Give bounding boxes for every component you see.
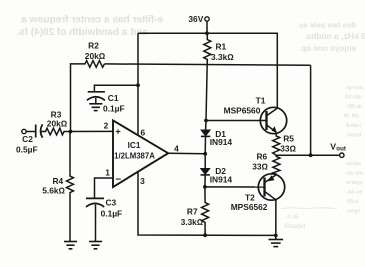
- svg-text:33Ω: 33Ω: [252, 162, 268, 172]
- ground C1: [89, 104, 102, 111]
- ground bottom right: [269, 235, 284, 246]
- capacitor C1: [87, 85, 138, 113]
- ground R4: [64, 242, 77, 249]
- diode D2 IN914: [201, 154, 233, 187]
- wire feedback right drop: [310, 65, 312, 155]
- node C1 junction: [136, 83, 140, 87]
- svg-text:3.3kΩ: 3.3kΩ: [181, 218, 203, 227]
- svg-text:0 kHz, a midba: 0 kHz, a midba: [306, 31, 365, 41]
- node input junction: [69, 130, 73, 134]
- wire feedback top: [105, 64, 311, 65]
- resistor R7: [181, 187, 209, 235]
- svg-text:this two pole ac: this two pole ac: [299, 20, 356, 29]
- svg-text:T1: T1: [256, 96, 266, 106]
- bleed-through text top-left: [16, 15, 163, 38]
- wire T2 base: [205, 186, 265, 188]
- svg-text:C2: C2: [22, 134, 33, 144]
- svg-text:3: 3: [140, 176, 145, 186]
- resistor R1: [204, 33, 235, 120]
- wire T1 base: [206, 120, 267, 122]
- svg-text:orlage: orlage: [346, 180, 363, 186]
- svg-text:-gress: -gress: [346, 85, 363, 91]
- wire input: [26, 131, 36, 133]
- svg-text:4: 4: [174, 144, 179, 154]
- svg-text:e-filter has a center frequow: e-filter has a center frequow a: [21, 15, 163, 26]
- bleed-through column right edge: [344, 85, 363, 215]
- svg-text:8-da-l: 8-da-l: [346, 123, 361, 129]
- svg-text:-da-ve: -da-ve: [346, 190, 362, 196]
- wire 36V stub: [206, 21, 208, 33]
- svg-text:T2: T2: [245, 192, 255, 202]
- wire top supply rail: [138, 32, 278, 34]
- svg-text:R7: R7: [187, 206, 198, 216]
- node Vout terminal: [330, 142, 346, 158]
- bleed-through text top-right: [299, 20, 365, 53]
- svg-text:C1: C1: [108, 93, 119, 103]
- node 36V terminal: [188, 14, 209, 24]
- node input terminal: [16, 129, 38, 154]
- diode D1 IN914: [201, 121, 232, 154]
- node opamp-diode junction: [203, 152, 207, 156]
- svg-text:out: out: [336, 145, 346, 152]
- svg-text:33Ω: 33Ω: [280, 143, 296, 153]
- wire T2 collector: [275, 200, 277, 236]
- node R7 bottom junction: [203, 233, 207, 237]
- wire pin1: [95, 178, 114, 198]
- svg-text:IN914: IN914: [210, 137, 233, 147]
- svg-text:+: +: [115, 126, 121, 137]
- svg-text:1: 1: [105, 168, 110, 178]
- svg-text:serga: serga: [346, 161, 362, 167]
- resistor R6: [252, 152, 280, 175]
- svg-text:3.35: 3.35: [287, 215, 299, 221]
- node T2 base junction: [203, 185, 207, 189]
- svg-text:MSP6560: MSP6560: [224, 105, 261, 115]
- svg-text:C3: C3: [106, 197, 117, 207]
- svg-text:-08-ah: -08-ah: [346, 104, 363, 110]
- svg-text:R2: R2: [88, 40, 99, 50]
- resistor R2: [71, 40, 106, 131]
- svg-text:R5: R5: [283, 134, 294, 144]
- capacitor C3: [86, 197, 122, 241]
- svg-text:-sege: -sege: [346, 209, 361, 215]
- svg-text:Sharpd: Sharpd: [284, 223, 306, 230]
- transistor Q1 T1 MSP6560: [224, 96, 287, 134]
- svg-text:−: −: [115, 174, 121, 185]
- transistor Q2 T2 MPS6562: [231, 174, 285, 212]
- bleed-through bottom-right: [281, 208, 337, 230]
- svg-text:03-ste: 03-ste: [345, 95, 361, 101]
- svg-text:0.1µF: 0.1µF: [103, 104, 125, 114]
- svg-text:MPS6562: MPS6562: [231, 202, 268, 212]
- node feedback junction: [309, 153, 313, 157]
- svg-text:R1: R1: [216, 41, 227, 51]
- svg-text:0.5µF: 0.5µF: [16, 145, 38, 155]
- node junction at rail: [205, 31, 209, 35]
- svg-text:IN914: IN914: [210, 174, 233, 184]
- resistor R5: [273, 134, 297, 156]
- wire pin6 supply: [137, 33, 139, 135]
- svg-text:08-d: 08-d: [347, 199, 359, 205]
- op-amp U1 IC1 1/2LM387A: [104, 120, 179, 187]
- svg-text:3.3kΩ: 3.3kΩ: [211, 52, 234, 62]
- svg-text:and a bandwidth of 20(4) fs.: and a bandwidth of 20(4) fs.: [16, 27, 148, 38]
- svg-text:20kΩ: 20kΩ: [47, 118, 68, 128]
- capacitor C2: [36, 124, 43, 137]
- wire pin3: [138, 172, 276, 236]
- node T1 base junction: [204, 119, 208, 123]
- svg-text:enjoys one op: enjoys one op: [301, 44, 356, 53]
- svg-text:M, 08-: M, 08-: [344, 114, 360, 120]
- ground C3: [89, 242, 102, 249]
- svg-text:R6: R6: [257, 152, 268, 162]
- svg-text:20kΩ: 20kΩ: [85, 51, 106, 61]
- wire pin4 output: [168, 152, 205, 155]
- svg-text:1/2LM387A: 1/2LM387A: [114, 151, 155, 160]
- svg-text:6: 6: [140, 127, 145, 137]
- node bottom right junction: [274, 234, 278, 238]
- svg-text:venst: venst: [347, 133, 362, 139]
- wire output: [276, 154, 340, 156]
- svg-text:-ca-am: -ca-am: [345, 171, 363, 177]
- resistor R4: [42, 132, 73, 242]
- svg-text:5.6kΩ: 5.6kΩ: [42, 185, 65, 195]
- svg-text:0.1µF: 0.1µF: [101, 209, 123, 219]
- svg-text:2: 2: [104, 121, 109, 131]
- svg-text:36V: 36V: [188, 14, 203, 24]
- wire T1 collector: [276, 33, 278, 108]
- resistor R3: [41, 109, 113, 135]
- svg-text:IC1: IC1: [128, 141, 141, 150]
